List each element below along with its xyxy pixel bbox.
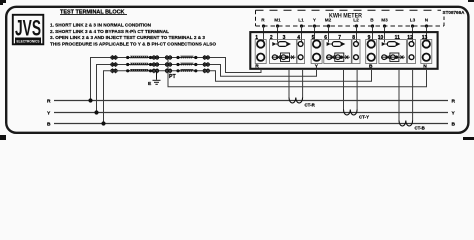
svg-text:R: R (452, 98, 456, 104)
svg-text:1: 1 (255, 35, 258, 41)
svg-text:1. SHORT LINK 2 & 3 IN NORMAL: 1. SHORT LINK 2 & 3 IN NORMAL CONDITION (50, 22, 152, 27)
svg-text:L1: L1 (298, 18, 304, 23)
svg-text:L3: L3 (410, 18, 416, 23)
svg-text:M2: M2 (325, 18, 332, 23)
svg-text:THIS PROCEDURE IS APPLICABLE T: THIS PROCEDURE IS APPLICABLE TO Y & B PH… (50, 42, 216, 47)
svg-text:B: B (47, 121, 51, 127)
svg-text:N: N (423, 63, 427, 69)
svg-text:3: 3 (283, 35, 286, 41)
svg-text:ELECTRONICS: ELECTRONICS (17, 39, 40, 43)
svg-text:CT-R: CT-R (305, 103, 316, 108)
svg-text:M1: M1 (274, 18, 281, 23)
svg-text:12: 12 (407, 35, 413, 41)
svg-text:6: 6 (324, 35, 327, 41)
svg-text:B: B (452, 121, 456, 127)
svg-text:JVS: JVS (15, 16, 41, 41)
svg-text:7: 7 (338, 35, 341, 41)
svg-text:PT: PT (169, 74, 176, 80)
svg-text:CT-B: CT-B (415, 125, 425, 130)
svg-text:M3: M3 (381, 18, 388, 23)
svg-text:8: 8 (352, 35, 355, 41)
svg-text:CT-Y: CT-Y (359, 115, 369, 120)
svg-text:5: 5 (312, 35, 315, 41)
svg-text:2: 2 (270, 35, 273, 41)
svg-text:R: R (255, 63, 259, 69)
svg-text:11: 11 (395, 35, 401, 41)
svg-text:L2: L2 (353, 18, 359, 23)
svg-text:4: 4 (297, 35, 300, 41)
svg-text:3. OPEN LINK 2 & 3 AND INJECT: 3. OPEN LINK 2 & 3 AND INJECT TEST CURRE… (50, 35, 205, 40)
svg-text:2. SHORT LINK 3 & 4 TO BYPASS: 2. SHORT LINK 3 & 4 TO BYPASS R-Ph CT TE… (50, 29, 169, 34)
svg-text:ST08766A: ST08766A (443, 10, 466, 16)
svg-text:R: R (47, 98, 51, 104)
svg-text:B: B (369, 63, 373, 69)
